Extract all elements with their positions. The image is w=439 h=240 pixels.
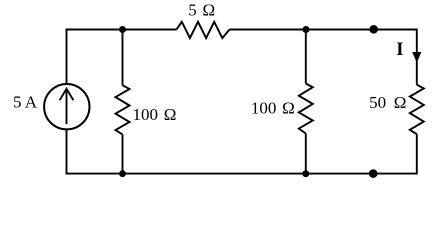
node dot bottom D (369, 169, 378, 178)
wire right vertical lower (416, 134, 418, 174)
node dot bottom B (119, 170, 126, 177)
node dot top C (303, 26, 310, 33)
svg-text:5 A: 5 A (13, 92, 38, 111)
wire left vertical upper (66, 29, 68, 84)
svg-text:50 Ω: 50 Ω (369, 93, 406, 112)
resistor R4 50 ohm zigzag (410, 85, 424, 135)
svg-text:100 Ω: 100 Ω (251, 99, 295, 118)
wire top horizontal left segment (67, 29, 177, 31)
current arrow I head (412, 52, 421, 63)
wire column C upper lead (305, 30, 307, 84)
node dot top B (119, 26, 126, 33)
wire right vertical upper (416, 29, 418, 85)
resistor R3 100 ohm zigzag (299, 84, 313, 134)
current source arrow stem (66, 89, 68, 124)
wire bottom horizontal (66, 173, 417, 175)
wire left vertical lower (66, 130, 68, 175)
current source arrow head (60, 89, 74, 101)
wire column B lower lead (122, 135, 124, 174)
svg-text:100 Ω: 100 Ω (133, 105, 177, 124)
wire top horizontal right segment (230, 29, 417, 31)
resistor R1 5 ohm zigzag (177, 22, 230, 38)
node dot top D (369, 25, 378, 34)
svg-text:I: I (396, 40, 403, 60)
svg-text:5 Ω: 5 Ω (188, 1, 215, 20)
resistor R2 100 ohm zigzag (116, 85, 130, 134)
wire column C lower lead (305, 134, 307, 174)
wire column B upper lead (122, 30, 124, 86)
node dot bottom C (302, 170, 309, 177)
current source IS1 circle (44, 84, 89, 129)
